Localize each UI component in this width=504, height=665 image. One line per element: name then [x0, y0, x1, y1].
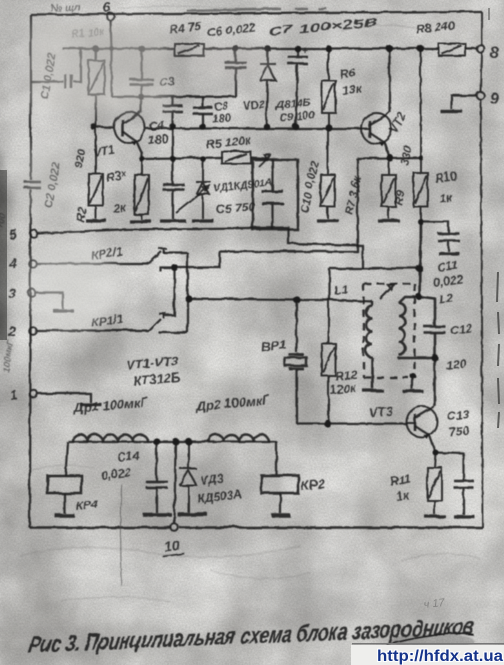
svg-text:R10: R10	[434, 169, 458, 185]
edge smudge top right	[488, 8, 490, 20]
node C8/bus126	[199, 123, 206, 130]
wire switch bottom stub	[158, 331, 187, 333]
svg-text:10: 10	[163, 536, 180, 554]
ground shield	[402, 389, 423, 392]
caption tail smudge	[390, 633, 474, 649]
node VT3 emitter	[432, 449, 438, 455]
node L2 top	[415, 293, 421, 299]
quartz BP1 plates	[288, 354, 303, 368]
svg-text:№ щл: № щл	[50, 1, 81, 14]
relay coil KP4	[47, 475, 81, 493]
node C4/bus126	[169, 123, 176, 130]
paper edge marks right	[497, 272, 499, 428]
capacitor C14 plates	[145, 481, 167, 487]
ground terminal 1	[80, 402, 101, 405]
terminal 9 circle	[476, 91, 484, 99]
svg-text:ВР1: ВР1	[260, 336, 287, 354]
node C7/bus126	[292, 123, 299, 130]
svg-text:120к: 120к	[329, 380, 357, 397]
inductor Dr1	[72, 434, 147, 441]
svg-text:180: 180	[211, 111, 231, 125]
wire choke bus	[67, 440, 276, 442]
node R6/bus48	[325, 45, 332, 52]
zener diode VD2	[259, 48, 275, 126]
node VD3 tap	[184, 437, 191, 444]
node VD1 tap	[199, 155, 205, 161]
node bus48 supply line	[62, 47, 476, 49]
node C3/bus48	[138, 45, 145, 52]
resistor R1	[88, 48, 104, 126]
terminal 10 circle	[170, 523, 178, 531]
svg-text:13к: 13к	[340, 80, 362, 97]
wire y268 link	[329, 268, 419, 299]
wire oscillator line y298	[188, 298, 372, 301]
wire terminal 6 down	[110, 20, 111, 96]
transistor VT3 base bar	[413, 413, 416, 430]
resistor R10	[413, 48, 427, 221]
capacitor C13 plates	[453, 480, 473, 487]
capacitor C2 (series in left rail)	[23, 181, 40, 187]
capacitor C7 electrolytic	[295, 48, 297, 126]
svg-text:180: 180	[147, 131, 169, 147]
caption flourish	[386, 633, 473, 644]
svg-text:+: +	[301, 45, 307, 56]
resistor R2	[88, 126, 102, 218]
capacitor C3 plates	[129, 79, 153, 84]
resistor R11	[427, 452, 441, 514]
terminal 2 circle	[28, 326, 36, 334]
diode VD3	[179, 441, 196, 512]
terminal 5 circle	[29, 229, 37, 237]
wire terminal 5 keying line	[37, 227, 362, 268]
resistor R8 (series in bus48)	[438, 43, 465, 55]
top margin smudge line	[186, 8, 326, 10]
svg-text:2к: 2к	[111, 200, 127, 215]
core tuning arrow	[379, 283, 394, 298]
node VT1 collector/bus96	[137, 93, 142, 98]
transistor VT2 base bar	[368, 120, 371, 137]
wire C13 branch	[435, 452, 463, 514]
wire terminal 4	[36, 262, 148, 264]
node BP1 top	[292, 295, 299, 302]
svg-text:C12: C12	[449, 320, 473, 337]
ground under R2	[85, 218, 106, 221]
watermark top edge	[352, 643, 504, 645]
quartz BP1 body	[284, 357, 306, 365]
inductor Dr2	[208, 434, 268, 441]
left rail wire	[29, 14, 30, 527]
svg-text:http://hfdx.at.ua: http://hfdx.at.ua	[377, 648, 503, 665]
ground by terminal 9	[440, 109, 462, 112]
fold crease bottom left	[120, 484, 122, 585]
wire to terminal 10	[174, 441, 175, 523]
wire terminal 2	[36, 329, 148, 331]
capacitor C3	[140, 48, 142, 96]
inductor L2	[398, 296, 434, 357]
wire C11 branch	[420, 221, 448, 251]
watermark band	[351, 645, 504, 665]
node trimmer tap	[169, 155, 175, 161]
ground under VD1	[191, 218, 213, 221]
ground under C13	[453, 514, 474, 517]
trimmer capacitor C5a plates	[162, 184, 184, 189]
svg-text:VT3: VT3	[368, 402, 394, 419]
capacitor C8 plates	[192, 107, 212, 113]
capacitor C6 plates	[224, 62, 246, 67]
transistor VT2 emitter	[369, 132, 389, 157]
node C14 tap	[152, 437, 159, 444]
svg-text:L2: L2	[438, 290, 454, 306]
capacitor C11 plates	[437, 233, 459, 240]
caption + watermark	[26, 484, 504, 665]
wire terminal 1 to ground	[37, 393, 90, 402]
node switch line/column	[415, 264, 422, 271]
relay contact KP2/1 fixed tip	[158, 248, 166, 253]
relay coil KP2	[261, 475, 298, 493]
node R6/R7/bus126	[324, 123, 331, 130]
terminal 3 circle	[27, 288, 35, 296]
quartz BP1 stem bottom	[295, 369, 297, 423]
node R12/base line	[323, 419, 330, 426]
node C7/bus48	[294, 45, 301, 52]
node shield ground dot	[409, 372, 415, 378]
node 6-line crossing	[109, 46, 114, 51]
wire switch vertical	[186, 252, 188, 332]
ground under R7	[316, 218, 338, 221]
transistor VT2 base lead	[361, 127, 369, 129]
node VT1 emitter	[138, 155, 144, 161]
resistor R4 (series in bus48)	[174, 43, 203, 55]
wire switch mid line	[160, 158, 357, 271]
svg-text:1к: 1к	[438, 190, 453, 205]
transistor VT3 emitter arrow	[423, 434, 429, 439]
transistor VT3 emitter	[414, 425, 435, 452]
wire terminal 3 to ground	[35, 292, 62, 308]
transistor VT1 emitter arrow	[130, 140, 136, 145]
transistor VT2 collector	[369, 48, 389, 124]
wire emitter line y157	[357, 157, 420, 158]
capacitor C14	[155, 441, 157, 512]
node VD2/bus48	[264, 45, 271, 52]
svg-text:ч 17: ч 17	[423, 597, 446, 611]
node mid line	[170, 263, 177, 270]
varicap diode VD1	[195, 158, 210, 218]
underline under 10	[162, 553, 184, 556]
capacitor C5 inside box	[271, 159, 273, 229]
caption Fig 3	[26, 612, 476, 657]
wire KP4 to ground	[63, 493, 65, 513]
frame bottom border / common bus	[29, 526, 482, 529]
wire terminal 9 to ground	[451, 95, 476, 109]
resistor R5	[221, 151, 250, 163]
ground under VD3	[177, 512, 207, 515]
node C6/bus48	[232, 45, 239, 52]
screened box C5	[252, 159, 297, 229]
frame top border	[30, 11, 481, 14]
node C3/bus96	[138, 93, 143, 98]
transistor VT3 collector	[414, 406, 434, 417]
transistor VT3	[406, 406, 437, 437]
node VT2 collector/bus48	[385, 44, 392, 51]
node R10/bus48	[416, 44, 423, 51]
wire mid node down to lower contact	[163, 267, 174, 315]
node R1/bus126	[90, 123, 97, 130]
resistor R6	[321, 48, 335, 127]
svg-text:9: 9	[489, 90, 498, 107]
transistor VT2 emitter arrow	[378, 141, 384, 146]
wire KP2 to ground	[279, 493, 281, 513]
ground under R11	[424, 514, 445, 517]
resistor R12	[321, 299, 335, 423]
junction node R1/bus48	[92, 45, 99, 52]
capacitor C4 plates	[162, 105, 182, 111]
capacitor C8	[201, 96, 203, 126]
resistor R3	[134, 158, 148, 219]
svg-text:750: 750	[448, 423, 470, 439]
wire contact to vertical	[163, 251, 187, 253]
transistor VT1 collector	[122, 96, 140, 123]
svg-text:R3ˣ: R3ˣ	[104, 167, 127, 184]
capacitor C7 plates	[287, 56, 307, 63]
node oscillator line	[184, 294, 191, 301]
wire VT3 base line	[296, 422, 406, 424]
inductor L1	[366, 301, 373, 388]
wire R10 column to L2	[419, 221, 420, 296]
node bus96 wire	[111, 95, 235, 97]
terminal 8 circle	[476, 44, 484, 52]
capacitor C1 plates	[65, 74, 71, 88]
wire R5 to box	[250, 157, 266, 158]
terminal 4 circle	[28, 259, 36, 267]
svg-text:8: 8	[489, 44, 498, 61]
svg-text:C14: C14	[116, 448, 140, 464]
wire C12 column	[418, 296, 434, 406]
ground under C14	[142, 512, 171, 515]
resistor R7	[320, 127, 334, 218]
svg-text:C13: C13	[446, 406, 470, 423]
svg-text:VD2: VD2	[242, 98, 264, 112]
scan washout overlays	[20, 22, 275, 330]
node C11 tap	[417, 218, 423, 224]
capacitor C6	[234, 48, 236, 96]
resistor R9	[381, 157, 395, 218]
ground under KP2	[271, 513, 290, 516]
node L2 bottom / C12	[430, 353, 437, 360]
wire KP4 riser	[65, 441, 67, 475]
ground under R3	[129, 219, 151, 222]
svg-text:L1: L1	[333, 281, 349, 297]
ground under L1	[362, 388, 383, 391]
wire KP2 riser	[275, 441, 277, 474]
quartz BP1 stem top	[295, 299, 297, 352]
trimmer capacitor C5a	[171, 126, 173, 218]
node terminal 10 tap	[171, 437, 178, 444]
transistor VT1	[114, 112, 145, 143]
frame right border	[480, 11, 482, 527]
node VD2/bus126	[263, 123, 270, 130]
relay contact KP1/1 blade	[148, 318, 160, 330]
ground under R9	[377, 218, 399, 221]
capacitor C4	[171, 96, 173, 126]
capacitor C12 plates	[423, 326, 445, 332]
svg-text:КР2: КР2	[300, 475, 326, 492]
wire shield to ground	[411, 377, 413, 389]
relay contact KP1/1 fixed tip	[158, 313, 166, 318]
varicap tuning arrow	[175, 185, 209, 212]
svg-text:120: 120	[445, 356, 467, 372]
capacitor C5 plates	[261, 191, 283, 203]
transistor VT1 emitter	[122, 131, 141, 158]
ground under C11	[438, 251, 459, 254]
ground terminal 3	[52, 308, 73, 311]
relay contact KP2/1 blade	[148, 251, 161, 263]
wire emitter line to R5	[141, 157, 221, 158]
ground under KP4	[54, 513, 74, 516]
node R10/emitter line	[418, 155, 423, 160]
svg-text:R11: R11	[389, 471, 412, 488]
svg-text:VД3: VД3	[199, 471, 224, 487]
terminal 1 circle	[29, 389, 37, 397]
ground under trimmer	[159, 218, 185, 221]
transistor VT2	[361, 113, 392, 144]
terminal 6 circle	[106, 12, 114, 20]
transistor VT3 base lead	[406, 421, 414, 423]
transistor VT1 base bar	[121, 119, 124, 136]
svg-text:КР4: КР4	[75, 497, 99, 513]
dashed shield box L1 L2	[363, 283, 414, 377]
arrow at box corner	[258, 154, 270, 166]
node bus126 base line	[93, 126, 361, 128]
capacitor C1 branch wire	[30, 48, 80, 81]
svg-text:R6: R6	[338, 65, 355, 81]
node VT2 emitter	[385, 153, 392, 160]
